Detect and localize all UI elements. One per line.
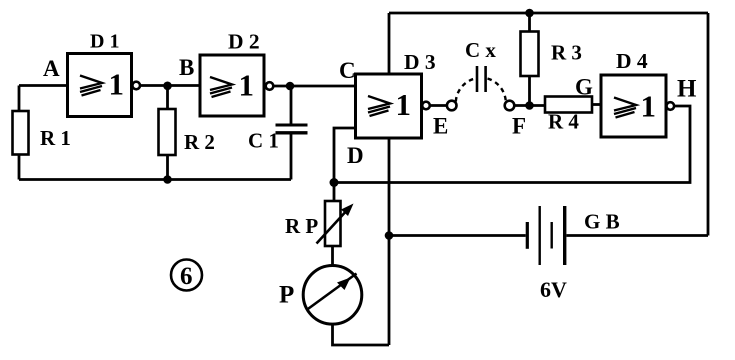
svg-text:H: H bbox=[677, 76, 697, 103]
svg-text:B: B bbox=[179, 55, 194, 80]
resistor R2 bbox=[159, 109, 176, 155]
junction D bbox=[330, 178, 339, 187]
node B junction bbox=[163, 82, 172, 91]
svg-text:D: D bbox=[347, 143, 364, 168]
wire battery left to frame junction bbox=[389, 234, 526, 237]
wire right vertical (top rail to battery) bbox=[707, 13, 710, 236]
svg-text:1: 1 bbox=[109, 67, 125, 102]
wire A down to R1 bbox=[18, 86, 21, 112]
svg-text:6: 6 bbox=[180, 263, 193, 290]
wire B down to R2 bbox=[166, 86, 169, 109]
svg-text:D 4: D 4 bbox=[616, 49, 648, 73]
svg-text:C: C bbox=[339, 58, 356, 83]
resistor R4 bbox=[545, 97, 592, 113]
wire R3 top stem bbox=[528, 13, 531, 32]
junction R2-rail bbox=[163, 175, 172, 184]
capacitor Cx dashed arc left bbox=[456, 79, 475, 102]
wire R4 to D4 input (node G) bbox=[592, 103, 601, 106]
capacitor C1 bbox=[276, 125, 308, 133]
svg-text:1: 1 bbox=[239, 68, 255, 103]
wire R2 to bottom rail bbox=[166, 155, 169, 180]
svg-text:C x: C x bbox=[465, 38, 496, 62]
gate U D2 bbox=[200, 55, 273, 116]
wire node A to D1 input bbox=[19, 84, 68, 87]
meter P bbox=[303, 266, 362, 325]
capacitor Cx dashed arc right bbox=[488, 79, 506, 102]
wire meter bottom to frame corner bbox=[333, 324, 390, 345]
wire left vertical upper (top rail to D3) bbox=[388, 13, 391, 74]
wire left vertical lower (D3 to bottom corner) bbox=[388, 138, 391, 345]
wire junction down to C1 bbox=[290, 86, 293, 125]
wire F to R4 bbox=[515, 104, 546, 107]
wire D2 output to node C / D3 input bbox=[274, 85, 356, 88]
gate U D1 bbox=[68, 54, 141, 117]
svg-text:R 3: R 3 bbox=[551, 41, 582, 65]
svg-text:G B: G B bbox=[584, 210, 620, 234]
figure number 6 circled bbox=[171, 260, 202, 291]
wire battery right to frame bbox=[567, 234, 709, 237]
wire D3 output to terminal E bbox=[430, 104, 447, 107]
wire D4 output node H down and left to junction D bbox=[334, 106, 690, 183]
terminal F open circle bbox=[505, 101, 515, 111]
svg-text:R 4: R 4 bbox=[548, 110, 579, 134]
svg-text:D 2: D 2 bbox=[228, 30, 260, 54]
junction battery-left vertical bbox=[385, 231, 394, 240]
svg-text:R 2: R 2 bbox=[184, 130, 215, 154]
gate U D3 bbox=[356, 74, 430, 138]
wire top rail bbox=[389, 12, 708, 15]
resistor RP (variable) bbox=[317, 201, 354, 246]
junction R3-top rail bbox=[525, 9, 534, 18]
wire R1 to bottom rail bbox=[18, 155, 21, 180]
resistor R3 bbox=[521, 32, 539, 77]
junction F-R3-R4 bbox=[525, 101, 534, 110]
svg-text:A: A bbox=[43, 56, 60, 81]
svg-text:1: 1 bbox=[396, 87, 412, 122]
svg-text:F: F bbox=[512, 114, 526, 139]
capacitor Cx plates bbox=[477, 66, 486, 92]
svg-text:G: G bbox=[575, 75, 593, 100]
terminal E open circle bbox=[447, 101, 457, 111]
svg-text:D 3: D 3 bbox=[404, 50, 436, 74]
gate U D4 bbox=[601, 75, 674, 137]
wire RP to meter P bbox=[331, 246, 334, 266]
svg-text:R P: R P bbox=[285, 214, 318, 238]
svg-text:6V: 6V bbox=[540, 277, 567, 302]
resistor R1 bbox=[13, 111, 29, 155]
wire C1 to bottom rail bbox=[290, 134, 293, 180]
svg-text:E: E bbox=[433, 114, 448, 139]
battery GB plates bbox=[527, 206, 564, 265]
svg-text:C 1: C 1 bbox=[248, 129, 279, 153]
wire R3 bottom stem bbox=[528, 76, 531, 106]
wire node D: D3 lower input down to H rail bbox=[334, 128, 356, 201]
wire D1 output to node B to D2 input bbox=[140, 84, 200, 87]
svg-text:R 1: R 1 bbox=[40, 126, 71, 150]
junction C1 tap bbox=[286, 82, 295, 91]
svg-text:D 1: D 1 bbox=[90, 31, 119, 53]
svg-text:1: 1 bbox=[641, 89, 657, 124]
svg-text:P: P bbox=[279, 282, 294, 309]
wire bottom rail R1-R2-C1 bbox=[19, 178, 291, 181]
